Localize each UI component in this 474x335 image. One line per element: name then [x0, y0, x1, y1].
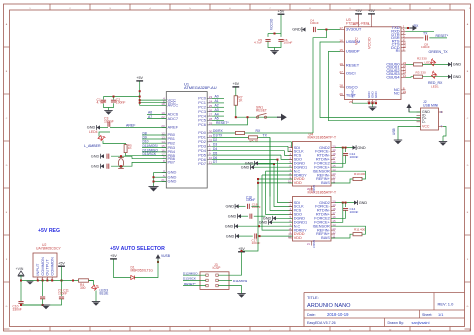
- wire auto selector: [114, 260, 131, 278]
- svg-text:USB MINI: USB MINI: [423, 103, 438, 107]
- svg-text:USB: USB: [392, 128, 396, 135]
- power flag +5V at regulator output: [58, 265, 65, 267]
- ground flag row2 with capacitor: [238, 214, 241, 218]
- U3 bottom ground pins AGND GND GND GND: [349, 89, 378, 103]
- svg-text:3V3OUT: 3V3OUT: [346, 27, 362, 32]
- svg-text:400: 400: [360, 172, 365, 176]
- svg-text:26: 26: [339, 92, 343, 96]
- ground below USB: [439, 141, 447, 143]
- svg-text:2: 2: [209, 147, 211, 151]
- ground below ICSP: [237, 293, 245, 295]
- svg-text:100nF: 100nF: [104, 119, 114, 123]
- svg-text:LED1: LED1: [431, 84, 439, 88]
- svg-text:NC: NC: [394, 90, 400, 95]
- svg-text:+5V: +5V: [136, 76, 143, 80]
- U1 left pins with names and numbers: [161, 97, 179, 184]
- IC U3 FT232RL-REEL USB UART: [345, 27, 402, 100]
- port arrow RESET: [277, 116, 281, 118]
- svg-text:PC6: PC6: [198, 122, 207, 127]
- resistor R10 400 at U4: [331, 179, 353, 183]
- ground flag row4 with capacitor C17 100nF: [236, 234, 239, 238]
- svg-text:MAX31865ATP-T: MAX31865ATP-T: [308, 190, 337, 194]
- svg-text:A2: A2: [215, 104, 219, 108]
- resistor R5 1K for LED4: [124, 145, 127, 153]
- ground flag right of U5: [335, 202, 354, 204]
- svg-text:GND: GND: [226, 234, 235, 238]
- svg-text:RX: RX: [414, 24, 420, 28]
- wire bundle verticals to U4 U5: [262, 137, 293, 230]
- svg-text:+5V: +5V: [58, 261, 65, 265]
- wire R4 to LED3 to ground: [89, 281, 94, 286]
- LED LED1 red rx: [423, 76, 449, 78]
- svg-text:ICSP: ICSP: [213, 266, 222, 270]
- svg-text:D13/SCK: D13/SCK: [183, 277, 197, 281]
- power flags +5V +5V above U3: [355, 13, 362, 15]
- svg-text:GND: GND: [225, 205, 234, 209]
- LED LED3 blue power: [92, 283, 100, 291]
- svg-text:GREEN_TX: GREEN_TX: [429, 50, 449, 54]
- U3 left pins: [339, 26, 361, 97]
- svg-text:TX: TX: [263, 133, 268, 137]
- svg-text:R3: R3: [416, 71, 420, 75]
- svg-text:VCC: VCC: [422, 125, 430, 129]
- svg-text:D12/MISO: D12/MISO: [183, 271, 198, 275]
- svg-text:OSCO: OSCO: [346, 84, 358, 89]
- wire C4 to 3V3OUT pin: [317, 29, 340, 31]
- svg-text:100nF: 100nF: [252, 241, 261, 245]
- wire crystal network to PB6 PB7: [111, 156, 121, 158]
- wire CBUS4 to R3: [406, 76, 414, 79]
- wires PC0-PC5 analog nets A0-A5: [212, 95, 224, 121]
- resistor R2 330: [414, 63, 423, 66]
- svg-text:400: 400: [360, 227, 365, 231]
- wire RXD net TX: [406, 30, 435, 32]
- svg-text:GND: GND: [87, 126, 96, 130]
- svg-text:RESET: RESET: [346, 62, 360, 67]
- svg-text:100nF: 100nF: [310, 21, 319, 25]
- wires PB0-PB5 with net labels: [142, 131, 166, 156]
- svg-text:D3: D3: [213, 143, 217, 147]
- power flag +5V top center: [278, 13, 285, 15]
- svg-text:4.7uF: 4.7uF: [97, 101, 106, 105]
- svg-text:BLUE: BLUE: [100, 292, 110, 296]
- svg-text:D7: D7: [213, 160, 217, 164]
- svg-text:100nF: 100nF: [116, 101, 126, 105]
- wire RX to FT232 side with net label RX: [245, 132, 314, 134]
- svg-text:GND: GND: [228, 214, 237, 218]
- ground flag row3 wire to U5: [235, 224, 238, 228]
- wire PD1 net D1/TX: [212, 136, 249, 138]
- regulator U2 UA78M05CDCY: [33, 253, 57, 277]
- wire ADC6 with net label A6: [147, 113, 166, 115]
- svg-text:10: 10: [288, 235, 292, 239]
- svg-text:300: 300: [80, 286, 86, 290]
- ground small below regulator common: [27, 280, 34, 282]
- ground flags for C7 C8: [101, 154, 104, 158]
- wire DSR to auto-reset cap: [404, 37, 424, 39]
- capacitor C12 100nF at U4: [345, 148, 347, 152]
- svg-text:TITLE:: TITLE:: [307, 295, 319, 300]
- svg-text:MBR0520LT1G: MBR0520LT1G: [131, 269, 154, 273]
- svg-text:sanjivsaini: sanjivsaini: [412, 320, 430, 325]
- svg-text:BIAS: BIAS: [321, 236, 330, 240]
- svg-text:+5V: +5V: [110, 254, 117, 258]
- svg-text:100nF: 100nF: [284, 41, 293, 45]
- svg-text:GND: GND: [91, 154, 100, 158]
- svg-text:VCCIO: VCCIO: [368, 37, 372, 49]
- svg-text:GND: GND: [453, 63, 462, 67]
- ground flag right of U4: [335, 147, 353, 149]
- ground for C1 C2: [108, 108, 110, 111]
- title block texts: [307, 295, 454, 325]
- svg-text:100nF: 100nF: [252, 205, 261, 209]
- svg-text:100nF: 100nF: [350, 210, 359, 214]
- svg-text:D6: D6: [213, 156, 217, 160]
- wires DVDD VDD of U4 to +5V rail: [242, 179, 293, 251]
- U3 top power pins VCC VCCIO: [358, 15, 360, 27]
- wire AREF net: [110, 127, 166, 129]
- power flag +5V for reset pull-up: [232, 86, 239, 88]
- svg-text:GND: GND: [225, 224, 234, 228]
- svg-text:GND: GND: [241, 165, 250, 169]
- svg-text:+5V AUTO SELECTOR: +5V AUTO SELECTOR: [110, 246, 165, 252]
- junction dots U1 gnd: [153, 176, 155, 178]
- ground under usb shield: [394, 139, 402, 141]
- svg-text:AGND: AGND: [351, 89, 355, 98]
- ground flag for C4: [302, 27, 305, 31]
- svg-text:ARDUNIO NANO: ARDUNIO NANO: [307, 303, 351, 309]
- junction dots on bundle: [277, 159, 279, 161]
- svg-text:330: 330: [421, 71, 426, 75]
- svg-text:L_AMBER: L_AMBER: [84, 144, 101, 148]
- svg-text:RX: RX: [256, 129, 261, 133]
- svg-text:VDD: VDD: [294, 236, 302, 240]
- ground flag row1 with capacitor C16 100nF: [235, 204, 238, 208]
- capacitor C6 100nF: [278, 39, 283, 41]
- IC U4 MAX31865ATP-T RTD converter: [293, 142, 332, 187]
- ground flag LED1: [448, 75, 451, 79]
- wire U1 ground pins: [154, 172, 167, 174]
- svg-text:PD7: PD7: [198, 161, 206, 166]
- svg-text:D0/RX: D0/RX: [213, 129, 223, 133]
- svg-text:+5V: +5V: [355, 9, 362, 13]
- wire reset net: [235, 88, 237, 96]
- capacitor C9 100nF on rail: [42, 281, 44, 297]
- ground symbol below U1: [148, 186, 158, 188]
- wire PD0 net D0/RX: [212, 132, 236, 134]
- capacitor C11 100nF on rail: [61, 281, 63, 297]
- svg-text:GND: GND: [259, 220, 268, 224]
- wire to caps C1 C2: [104, 96, 140, 98]
- svg-text:GND: GND: [292, 28, 301, 32]
- wires ICSP right: [218, 251, 241, 275]
- wire VIN down to rail and C10: [20, 275, 22, 301]
- power flag +5V for ICSP: [238, 251, 245, 253]
- svg-text:1/1: 1/1: [438, 312, 443, 317]
- svg-text:RI: RI: [396, 48, 400, 53]
- svg-text:R5: R5: [250, 139, 254, 143]
- svg-text:+5V REG: +5V REG: [38, 228, 60, 234]
- svg-text:COMMON: COMMON: [49, 257, 54, 276]
- svg-text:BIAS: BIAS: [321, 181, 330, 185]
- svg-text:D5: D5: [213, 151, 217, 155]
- svg-text:PB7: PB7: [168, 160, 176, 165]
- net flag VUSB right: [157, 258, 159, 263]
- svg-text:ATMEGA328P-AU: ATMEGA328P-AU: [184, 85, 217, 90]
- svg-text:G: G: [6, 306, 8, 308]
- svg-text:GND: GND: [91, 164, 100, 168]
- power flag +5V selector: [110, 258, 117, 260]
- svg-text:VCC: VCC: [355, 37, 359, 45]
- svg-text:2018-10-19: 2018-10-19: [327, 312, 349, 317]
- svg-text:GND: GND: [453, 75, 462, 79]
- svg-text:TX: TX: [423, 32, 428, 36]
- IC U5 MAX31865ATP-T RTD converter: [293, 197, 332, 242]
- wire VUSB net going left: [409, 108, 421, 113]
- crystal Y1 16MHz: [118, 157, 124, 168]
- svg-text:AREF: AREF: [168, 125, 179, 130]
- svg-text:A7: A7: [148, 115, 152, 119]
- svg-text:D2: D2: [213, 138, 217, 142]
- wire TXD to port RX: [406, 27, 410, 29]
- svg-text:VCC3O: VCC3O: [269, 18, 273, 30]
- junction dots on VCC rail: [139, 90, 141, 92]
- resistor R6 1K on RX net: [236, 131, 245, 134]
- wires ICSP left with net labels: [183, 274, 206, 276]
- wire USBDP to USB connector D-: [329, 51, 421, 120]
- svg-text:GND: GND: [359, 201, 368, 205]
- capacitor C1 4.7uF: [101, 99, 106, 101]
- capacitor C5 4.7uF: [265, 39, 270, 41]
- ground flags at U5 DGND pins: [276, 217, 293, 219]
- wire ADC7 with net label A7: [147, 118, 166, 120]
- ground flag pair near U4 DGND pins: [258, 162, 293, 164]
- ground below C5 C6: [270, 50, 278, 52]
- ground below LED3: [92, 301, 100, 303]
- svg-text:D11/MOSI: D11/MOSI: [233, 279, 247, 283]
- svg-text:330nF: 330nF: [13, 307, 22, 311]
- resistor R3 330: [414, 75, 423, 78]
- svg-text:28: 28: [339, 84, 343, 88]
- svg-text:OSCI: OSCI: [346, 71, 356, 76]
- power flag +5V for U1: [136, 80, 143, 82]
- U1 right pins with names and numbers: [198, 95, 212, 166]
- svg-text:D10: D10: [143, 140, 149, 144]
- svg-text:AREF: AREF: [126, 124, 136, 128]
- ground below U3: [369, 106, 377, 108]
- wire U4 DRDY rows to bundle: [266, 170, 293, 172]
- svg-text:100nF: 100nF: [350, 155, 359, 159]
- wire +5V rail to U1 VCC pins: [140, 82, 167, 106]
- svg-text:RESET: RESET: [256, 109, 267, 113]
- wire loop U4 right GND2 to FORCE row: [342, 147, 344, 149]
- wire USBDM to USB connector D+: [320, 42, 421, 118]
- capacitor C7 22pF: [106, 154, 108, 159]
- resistor R11 400 at U5: [331, 234, 353, 238]
- junction dots regulator pins: [37, 280, 39, 282]
- svg-text:A0: A0: [215, 95, 219, 99]
- wire TX continue to bundle: [258, 136, 271, 138]
- wires PD2-PD7 to vertical bundle: [212, 138, 292, 164]
- svg-text:100nF: 100nF: [421, 45, 430, 49]
- IC U1 ATMEGA328P-AU microcontroller: [166, 92, 207, 188]
- svg-text:GND: GND: [374, 91, 378, 98]
- svg-text:RESET*: RESET*: [184, 282, 196, 286]
- ground below caps: [42, 304, 44, 306]
- capacitor C2 100nF: [111, 99, 116, 101]
- wire SW1 to port: [267, 116, 278, 118]
- svg-text:4.7uF: 4.7uF: [254, 41, 262, 45]
- svg-text:RESET*: RESET*: [216, 121, 229, 125]
- svg-text:REV: 1.0: REV: 1.0: [438, 302, 455, 307]
- capacitor C8 100nF auto-reset: [425, 35, 427, 40]
- ground flag LED2: [448, 62, 451, 66]
- svg-text:VUSB: VUSB: [161, 254, 170, 258]
- svg-text:ADC7: ADC7: [168, 116, 179, 121]
- wire CBUS0 to R2: [406, 63, 414, 65]
- svg-text:RESET*: RESET*: [436, 34, 449, 38]
- svg-text:VDD: VDD: [294, 181, 302, 185]
- svg-text:+VIN: +VIN: [16, 267, 24, 271]
- wire usb shield to ground: [398, 127, 421, 139]
- svg-text:GND3: GND3: [312, 240, 316, 248]
- svg-text:A4: A4: [215, 112, 219, 116]
- svg-text:MAX31865ATP-T: MAX31865ATP-T: [308, 135, 337, 139]
- svg-text:A1: A1: [215, 99, 219, 103]
- svg-text:6: 6: [403, 48, 405, 52]
- U3 right pins: [386, 25, 406, 96]
- svg-text:D1/TX: D1/TX: [213, 134, 223, 138]
- svg-text:CBUS4: CBUS4: [386, 75, 400, 80]
- wire 3V3 cap rail: [267, 34, 269, 37]
- wire PC6 to reset with net label RESET*: [212, 117, 248, 125]
- svg-text:Sheet:: Sheet:: [422, 313, 432, 317]
- wire U3 grounds to ground symbol: [353, 102, 377, 104]
- title block frame: [304, 293, 465, 327]
- svg-text:+5V: +5V: [278, 9, 285, 13]
- svg-text:1: 1: [209, 143, 211, 147]
- resistor R7 1K reset pullup: [234, 96, 237, 106]
- svg-text:R11: R11: [354, 227, 360, 231]
- svg-text:24: 24: [403, 90, 407, 94]
- svg-text:D4: D4: [213, 147, 217, 151]
- junction reset: [247, 116, 249, 118]
- svg-text:21: 21: [307, 242, 311, 246]
- svg-text:GND: GND: [357, 146, 366, 150]
- svg-text:27: 27: [339, 70, 343, 74]
- svg-text:USBDP: USBDP: [346, 49, 360, 54]
- capacitor C14 100nF at U5: [345, 203, 347, 207]
- net label RESET* at cap: [429, 37, 447, 39]
- svg-text:AVCC: AVCC: [168, 103, 179, 108]
- resistor R4 300: [79, 279, 89, 282]
- resistor R5 1K on TX net: [249, 136, 258, 139]
- ground flag left of C3: [97, 125, 100, 129]
- svg-text:Date:: Date:: [307, 313, 316, 317]
- capacitor C3 100nF on AREF: [107, 122, 109, 127]
- svg-text:9: 9: [209, 152, 211, 156]
- svg-text:GND: GND: [168, 179, 177, 184]
- svg-text:+5V: +5V: [368, 9, 375, 13]
- capacitor C8 22pF: [106, 164, 108, 169]
- svg-text:19: 19: [339, 62, 343, 66]
- power rail wire of regulator: [21, 280, 94, 282]
- capacitor C10 330nF: [18, 301, 23, 303]
- wire LED4 to PB net: [103, 141, 126, 145]
- svg-text:LED4: LED4: [89, 130, 98, 134]
- wire USB VCC down to ground rail and VUSB: [405, 109, 421, 112]
- junction crystal: [120, 155, 122, 157]
- svg-text:G: G: [467, 306, 469, 308]
- svg-text:+5V: +5V: [232, 82, 239, 86]
- svg-text:EasyEDA V5.7.26: EasyEDA V5.7.26: [307, 321, 336, 325]
- wire loop U5 right GND2 to FORCE row: [342, 202, 344, 204]
- svg-text:A3: A3: [215, 108, 219, 112]
- svg-text:100nF: 100nF: [58, 291, 67, 295]
- svg-text:Drawn By:: Drawn By:: [388, 321, 405, 325]
- svg-text:D13/SCK: D13/SCK: [143, 152, 157, 156]
- svg-text:UA78M05CDCY: UA78M05CDCY: [36, 247, 62, 251]
- capacitor C4 100nF: [313, 27, 315, 32]
- svg-text:20: 20: [353, 22, 357, 26]
